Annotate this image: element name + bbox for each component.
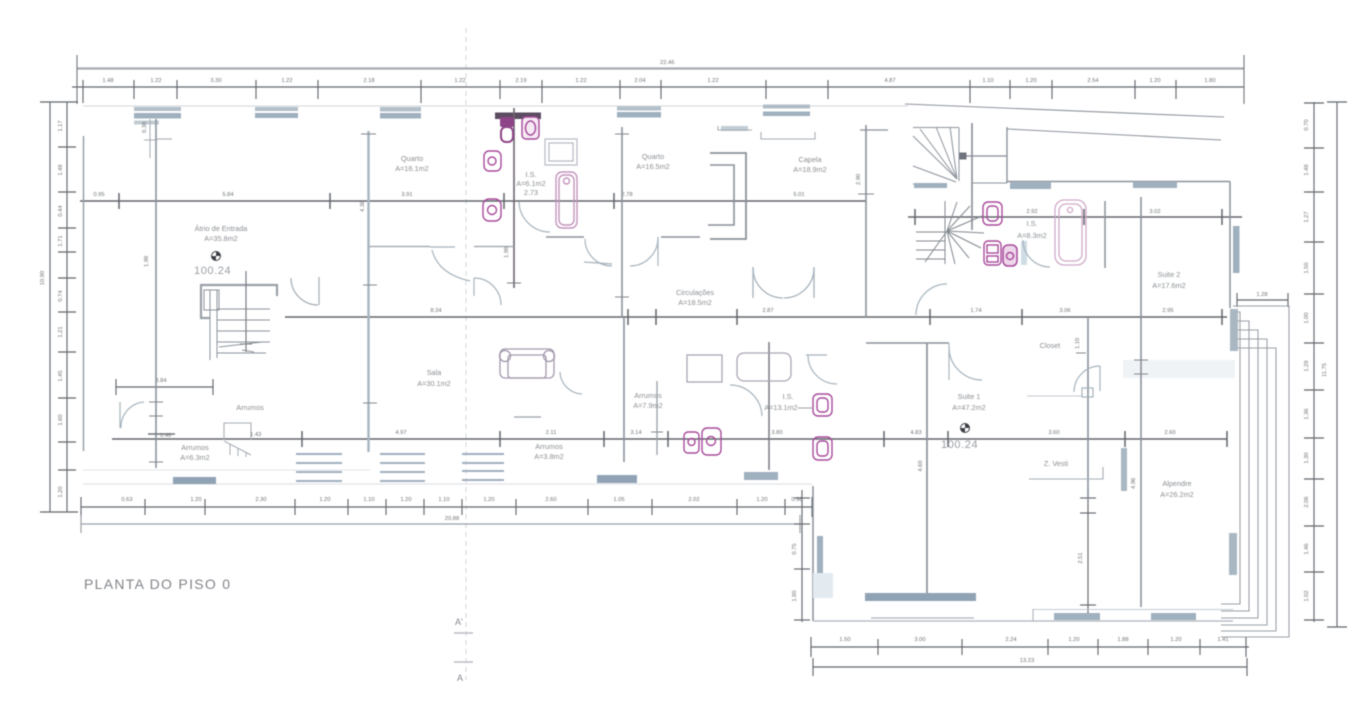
vertical dim line x=802 below building	[794, 490, 810, 622]
sala table line	[514, 416, 541, 418]
svg-text:A=18.9m2: A=18.9m2	[793, 165, 826, 174]
svg-text:0.75: 0.75	[792, 543, 798, 554]
wall I.S. x514	[513, 108, 515, 288]
left outer dimension line 10.90	[40, 102, 78, 512]
svg-text:1.02: 1.02	[1304, 590, 1310, 601]
svg-text:3.06: 3.06	[1059, 308, 1070, 314]
svg-text:2.92: 2.92	[1026, 209, 1037, 215]
bottom-left total dimension 20.88	[81, 515, 800, 533]
svg-text:1.88: 1.88	[1117, 637, 1128, 643]
svg-text:1.46: 1.46	[1304, 543, 1310, 554]
svg-text:4.87: 4.87	[884, 78, 895, 84]
stairhall wall vertical	[971, 123, 973, 230]
top dimension numbers	[102, 78, 1215, 84]
suite2 IS door arc	[1023, 240, 1050, 267]
svg-text:A=13.1m2: A=13.1m2	[764, 403, 797, 412]
svg-text:1.45: 1.45	[58, 370, 64, 381]
capela sill line	[761, 132, 815, 139]
svg-text:1.20: 1.20	[483, 497, 494, 503]
svg-text:1.30: 1.30	[1304, 452, 1310, 463]
svg-text:5.84: 5.84	[222, 192, 234, 198]
wall interior x156	[155, 119, 157, 468]
east window vertical bar	[1233, 226, 1240, 273]
svg-text:4.60: 4.60	[918, 460, 924, 471]
small dim 1.28 porch	[1237, 293, 1288, 307]
closet door	[1074, 366, 1100, 397]
window W3	[380, 107, 421, 119]
svg-text:2.30: 2.30	[255, 497, 266, 503]
svg-text:1.10: 1.10	[982, 78, 993, 84]
svg-text:Arrumos: Arrumos	[236, 403, 264, 412]
window W7	[1010, 183, 1051, 190]
bidet C	[484, 151, 501, 171]
svg-text:20.88: 20.88	[445, 516, 460, 522]
svg-text:Z. Vesti: Z. Vesti	[1044, 459, 1069, 468]
svg-text:13.23: 13.23	[1020, 658, 1035, 664]
porch steps east	[1221, 306, 1289, 637]
bed 2	[737, 353, 791, 381]
svg-text:1.10: 1.10	[363, 497, 374, 503]
svg-text:0.44: 0.44	[58, 205, 64, 217]
svg-text:1.74: 1.74	[970, 308, 982, 314]
svg-text:A': A'	[455, 617, 463, 627]
toilet A dark	[500, 117, 514, 142]
svg-text:2.54: 2.54	[1087, 78, 1099, 84]
svg-text:2.11: 2.11	[546, 430, 557, 436]
wall alpendre x1141	[1140, 197, 1142, 607]
svg-text:4.97: 4.97	[395, 430, 406, 436]
svg-text:2.60: 2.60	[1164, 430, 1175, 436]
louver window L1	[296, 454, 342, 481]
wall suite1 left x927	[926, 343, 928, 598]
window bar B2	[597, 475, 637, 483]
svg-text:3.14: 3.14	[630, 430, 642, 436]
svg-text:3.60: 3.60	[1048, 430, 1059, 436]
svg-text:2.02: 2.02	[688, 497, 699, 503]
louver window L2	[380, 454, 425, 481]
svg-text:Circulações: Circulações	[676, 288, 714, 297]
svg-text:1.22: 1.22	[575, 78, 586, 84]
svg-text:1.22: 1.22	[454, 78, 465, 84]
svg-text:0.63: 0.63	[121, 497, 132, 503]
vertical dim line x=1088 below building	[1080, 490, 1096, 620]
svg-text:1.20: 1.20	[1025, 78, 1036, 84]
porch shade	[1123, 360, 1235, 378]
bottom-right total dimension 13.23	[813, 658, 1247, 676]
svg-text:3.30: 3.30	[210, 78, 221, 84]
bottom wall right wing	[813, 620, 1233, 622]
svg-text:100.24: 100.24	[194, 265, 231, 277]
svg-text:2.73: 2.73	[524, 188, 538, 197]
window bar B1	[173, 477, 216, 484]
I.S. door arc	[519, 202, 550, 232]
window W1 lower bar	[134, 121, 159, 125]
corridor double door	[584, 237, 658, 266]
svg-text:Quarto: Quarto	[401, 154, 423, 163]
entry stair dim vertical	[245, 271, 247, 352]
interior dimension line y=439	[112, 431, 1227, 447]
interior dimension line right y=217	[908, 209, 1242, 225]
z.vesti partition	[1029, 467, 1103, 479]
roof diagonal 1	[905, 104, 1224, 117]
svg-text:1.80: 1.80	[792, 590, 798, 601]
svg-text:2.04: 2.04	[634, 78, 646, 84]
svg-text:Quarto: Quarto	[642, 152, 664, 161]
top outer dimension line 22.46	[77, 67, 1244, 69]
svg-text:3.00: 3.00	[914, 637, 925, 643]
entry door	[291, 277, 319, 305]
toilet G suite2	[983, 202, 1002, 225]
svg-text:1.41: 1.41	[1217, 637, 1228, 643]
svg-text:Closet: Closet	[1040, 341, 1061, 350]
svg-text:1.43: 1.43	[250, 432, 261, 438]
window W4	[617, 107, 661, 118]
bathtub J suite2	[1055, 200, 1086, 265]
window W2	[255, 107, 298, 118]
sink M	[684, 432, 699, 453]
svg-text:1.20: 1.20	[1068, 637, 1079, 643]
svg-text:I.S.: I.S.	[783, 392, 794, 401]
wall left exterior	[83, 136, 85, 451]
svg-text:A=6.3m2: A=6.3m2	[180, 453, 209, 462]
wall quarto2 x622 lower	[623, 318, 625, 462]
svg-text:Arrumos: Arrumos	[535, 442, 563, 451]
svg-text:Átrio de Entrada: Átrio de Entrada	[195, 224, 249, 233]
interior dimension line y=201	[80, 193, 866, 209]
corridor north wall segments	[546, 236, 584, 238]
svg-text:1.20: 1.20	[319, 497, 330, 503]
svg-text:3.84: 3.84	[155, 378, 167, 384]
svg-text:11.75: 11.75	[1322, 363, 1328, 377]
svg-text:1.20: 1.20	[190, 497, 201, 503]
svg-text:A=18.5m2: A=18.5m2	[678, 298, 711, 307]
capela niche inner	[708, 165, 734, 225]
sala sofa	[500, 349, 555, 378]
svg-text:1.48: 1.48	[58, 164, 64, 175]
bottom wall left wing	[83, 469, 370, 471]
svg-text:1.22: 1.22	[150, 78, 161, 84]
wall stub below W1	[149, 119, 151, 158]
stairhall node	[960, 153, 967, 160]
toilet K leader	[798, 407, 813, 409]
svg-text:1.98: 1.98	[144, 256, 150, 267]
bed 1	[687, 355, 722, 382]
toilet H suite2	[984, 241, 1001, 265]
svg-text:0.74: 0.74	[58, 290, 64, 302]
level marker suite1	[961, 424, 970, 433]
upper stair fan	[913, 127, 1007, 184]
svg-text:A=35.8m2: A=35.8m2	[204, 234, 237, 243]
stairhall wall vertical 2	[1006, 127, 1008, 183]
svg-text:1.50: 1.50	[1304, 262, 1310, 273]
stairhall door arc	[916, 284, 947, 315]
svg-text:1.28: 1.28	[1256, 292, 1267, 298]
window bar B3	[744, 472, 778, 480]
svg-text:10.90: 10.90	[40, 271, 46, 286]
svg-text:2.87: 2.87	[762, 308, 773, 314]
tick cluster 0.46	[148, 433, 175, 435]
wall x657 arrumos right	[656, 381, 658, 455]
sala door pair	[430, 247, 501, 305]
suite1 IS door arc	[730, 385, 762, 416]
svg-text:Suite 2: Suite 2	[1158, 270, 1181, 279]
svg-text:A=6.1m2: A=6.1m2	[516, 179, 545, 188]
svg-text:A: A	[457, 673, 463, 683]
toilet D	[483, 199, 501, 221]
svg-text:1.05: 1.05	[613, 497, 624, 503]
svg-text:1.10: 1.10	[1075, 338, 1081, 349]
window W5 capela	[763, 105, 810, 117]
interior dimension line y=317	[285, 309, 1227, 325]
arrumos niche	[224, 423, 251, 440]
svg-text:A=26.2m2: A=26.2m2	[1160, 490, 1193, 499]
svg-text:2.95: 2.95	[1162, 308, 1173, 314]
sink B	[522, 117, 539, 139]
capela bracket	[718, 126, 752, 130]
svg-text:0.95: 0.95	[93, 192, 104, 198]
svg-text:1.21: 1.21	[58, 326, 64, 337]
right inner dimension line	[1304, 102, 1324, 622]
svg-text:A=17.6m2: A=17.6m2	[1152, 281, 1185, 290]
svg-text:4.38: 4.38	[360, 201, 366, 212]
svg-text:Capela: Capela	[798, 155, 822, 164]
svg-text:4.96: 4.96	[1131, 478, 1137, 489]
svg-text:1.36: 1.36	[1304, 408, 1310, 419]
east wall window bars	[1230, 309, 1238, 351]
svg-text:3.80: 3.80	[771, 430, 782, 436]
svg-text:Sala: Sala	[427, 368, 443, 377]
shower	[545, 139, 577, 165]
svg-text:100.24: 100.24	[941, 439, 978, 451]
svg-text:2.51: 2.51	[1078, 552, 1084, 563]
arrumos ramp	[224, 441, 251, 457]
bottom wing left wall x813	[812, 486, 814, 621]
svg-text:Arrumos: Arrumos	[634, 391, 662, 400]
bottom wing window vertical	[817, 536, 823, 591]
svg-text:22.46: 22.46	[660, 60, 675, 66]
svg-text:4.83: 4.83	[910, 430, 921, 436]
porch bottom bars	[1054, 613, 1100, 620]
stairhall landing line	[963, 155, 1007, 157]
suite1 door arc	[949, 347, 982, 380]
svg-text:I.S.: I.S.	[526, 170, 537, 179]
svg-text:A=16.1m2: A=16.1m2	[395, 164, 428, 173]
toilet L	[813, 437, 832, 460]
svg-text:A=8.3m2: A=8.3m2	[1017, 231, 1046, 240]
bathtub E	[556, 172, 577, 228]
svg-text:Arrumos: Arrumos	[181, 443, 209, 452]
capela niche outer	[710, 153, 746, 239]
svg-text:1.20: 1.20	[756, 497, 767, 503]
svg-text:3.02: 3.02	[1149, 209, 1160, 215]
room labels	[180, 152, 1193, 499]
bidet I suite2	[1003, 245, 1017, 266]
svg-text:0.38: 0.38	[142, 122, 148, 133]
z.vesti window bar	[1121, 448, 1127, 491]
svg-text:1.20: 1.20	[1170, 637, 1181, 643]
right wing east wall	[1229, 182, 1231, 309]
bottom-right dimension line	[811, 637, 1249, 657]
wall atrio right x370	[367, 131, 369, 452]
window W1	[134, 107, 181, 119]
svg-text:8.34: 8.34	[430, 308, 442, 314]
svg-text:1.22: 1.22	[707, 78, 718, 84]
svg-text:2.19: 2.19	[515, 78, 526, 84]
svg-text:2.90: 2.90	[856, 174, 862, 185]
svg-text:1.80: 1.80	[1204, 78, 1215, 84]
svg-text:PLANTA DO PISO 0: PLANTA DO PISO 0	[84, 576, 231, 592]
dark wall band I.S.	[495, 113, 541, 120]
suite2 IS window shade	[1021, 241, 1027, 265]
window W6	[914, 183, 947, 188]
svg-text:1.17: 1.17	[58, 120, 64, 131]
sala door right	[560, 372, 582, 394]
closet line	[1027, 395, 1082, 397]
suite1 south window	[865, 593, 976, 601]
arrumos door arc	[120, 402, 144, 428]
right outer dimension line 11.75	[1327, 102, 1347, 627]
svg-text:1.00: 1.00	[1304, 312, 1310, 323]
svg-text:1.20: 1.20	[58, 486, 64, 497]
roof diagonal 2	[1007, 129, 1221, 140]
svg-text:1.20: 1.20	[400, 497, 411, 503]
wall capela right x866	[865, 125, 867, 318]
svg-text:Alpendre: Alpendre	[1162, 479, 1191, 488]
window W8	[1133, 182, 1177, 189]
section line A-A'	[465, 28, 467, 680]
svg-text:A=47.2m2: A=47.2m2	[952, 403, 985, 412]
closet wall x1088	[1087, 318, 1089, 500]
louver window L3	[462, 454, 504, 480]
bottom-left dimension line	[81, 497, 812, 517]
level marker atrio	[212, 252, 221, 261]
sink N	[702, 428, 721, 455]
svg-text:0.70: 0.70	[1304, 119, 1310, 130]
svg-text:1.27: 1.27	[1304, 211, 1310, 222]
svg-text:A=30.1m2: A=30.1m2	[417, 379, 450, 388]
section marker A	[454, 661, 473, 663]
right wing top wall	[1007, 181, 1230, 183]
svg-text:1.10: 1.10	[438, 497, 449, 503]
svg-text:1.50: 1.50	[839, 637, 850, 643]
svg-text:2.60: 2.60	[545, 497, 556, 503]
svg-text:1.28: 1.28	[1304, 360, 1310, 371]
wall x1105	[1104, 201, 1106, 268]
svg-text:A=16.5m2: A=16.5m2	[636, 162, 669, 171]
svg-text:1.98: 1.98	[504, 247, 510, 258]
svg-text:1.71: 1.71	[58, 235, 64, 246]
svg-text:1.22: 1.22	[281, 78, 292, 84]
svg-text:1.48: 1.48	[102, 78, 113, 84]
wall suite1 IS x769	[768, 342, 770, 470]
wall quarto2 x622	[621, 127, 623, 317]
svg-text:2.78: 2.78	[621, 192, 632, 198]
svg-text:1.60: 1.60	[58, 414, 64, 425]
suite1 door arc top	[806, 355, 837, 384]
svg-text:2.06: 2.06	[1304, 496, 1310, 507]
svg-text:0.46: 0.46	[160, 433, 171, 439]
svg-text:2.24: 2.24	[1005, 637, 1017, 643]
svg-text:3.91: 3.91	[401, 192, 412, 198]
left inner dimension line	[58, 102, 76, 512]
svg-text:A=3.8m2: A=3.8m2	[534, 452, 563, 461]
svg-text:1.20: 1.20	[1149, 78, 1160, 84]
svg-text:1.48: 1.48	[1304, 164, 1310, 175]
corridor M door	[753, 267, 814, 298]
exterior wall top	[83, 105, 908, 107]
entry stair	[200, 285, 277, 318]
svg-text:2.18: 2.18	[363, 78, 374, 84]
suite1 top wall	[866, 342, 949, 344]
svg-text:5.01: 5.01	[793, 192, 804, 198]
svg-text:Suite 1: Suite 1	[958, 392, 981, 401]
small dim 3.84	[116, 379, 213, 395]
toilet K	[813, 394, 832, 416]
svg-text:A=7.9m2: A=7.9m2	[633, 401, 662, 410]
capela sill bar	[721, 126, 748, 131]
spiral stair	[916, 201, 984, 264]
top dimension line row2	[72, 80, 1244, 103]
svg-text:I.S.: I.S.	[1027, 219, 1038, 228]
